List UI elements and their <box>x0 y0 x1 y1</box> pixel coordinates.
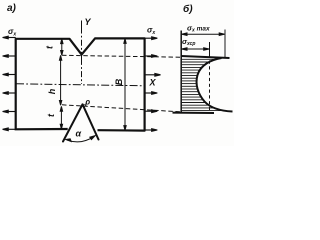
svg-text:а): а) <box>7 3 17 14</box>
dimension B <box>124 39 126 131</box>
svg-text:h: h <box>47 88 57 94</box>
panel b) baseline <box>180 31 182 113</box>
svg-text:б): б) <box>183 3 193 15</box>
sigma_x max dimension <box>182 33 225 36</box>
svg-text:σхср: σхср <box>182 37 195 47</box>
dimension h <box>59 55 61 105</box>
dashed line bottom apex level <box>62 105 180 112</box>
svg-text:B: B <box>114 78 124 85</box>
dashed line top notch tip level <box>62 55 180 57</box>
hatch lines <box>182 59 223 110</box>
alpha angle arc <box>66 136 95 142</box>
right load arrows <box>145 37 161 131</box>
top boundary line panel b <box>181 56 229 58</box>
stress curve <box>197 58 233 112</box>
svg-text:t: t <box>46 113 56 117</box>
dimension t top <box>61 39 63 56</box>
Y axis <box>81 21 83 85</box>
bottom notch V legs <box>63 104 99 141</box>
left load arrows <box>3 36 16 130</box>
svg-text:σх: σх <box>8 27 16 38</box>
plate outline <box>16 38 145 130</box>
svg-text:X: X <box>149 78 157 88</box>
svg-text:Y: Y <box>85 17 92 27</box>
svg-text:σх mах: σх mах <box>187 24 210 34</box>
bottom line panel b <box>173 112 215 114</box>
dimension t bottom <box>60 106 62 129</box>
svg-text:ρ: ρ <box>84 98 90 107</box>
sigma_x sr vertical line <box>209 42 211 58</box>
sigma_x max end tick <box>224 30 226 59</box>
svg-text:t: t <box>45 45 55 49</box>
svg-text:α: α <box>76 129 82 139</box>
svg-text:σх: σх <box>147 26 155 37</box>
sigma_x sr dimension <box>182 48 210 51</box>
X axis <box>16 84 146 86</box>
